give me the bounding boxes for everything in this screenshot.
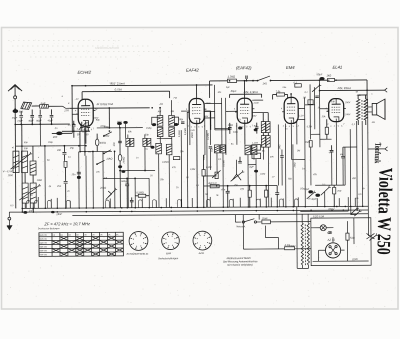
svg-text:MW·KW: MW·KW: [40, 235, 47, 237]
svg-text:90pF: 90pF: [36, 119, 42, 122]
svg-text:MW·KW: MW·KW: [40, 254, 47, 256]
svg-text:245V: 245V: [344, 113, 351, 116]
svg-text:100p: 100p: [178, 118, 184, 121]
svg-text:40pF: 40pF: [48, 119, 54, 122]
svg-text:FM: FM: [174, 98, 177, 100]
svg-text:EM4: EM4: [166, 252, 172, 255]
svg-text:Violetta W 250: Violetta W 250: [372, 167, 395, 255]
svg-text:0,1M: 0,1M: [260, 174, 265, 176]
svg-text:500p: 500p: [121, 180, 127, 183]
svg-text:0,3M: 0,3M: [206, 166, 211, 169]
svg-text:95V: 95V: [253, 116, 257, 118]
svg-text:50kΩ: 50kΩ: [204, 154, 206, 160]
svg-text:ZF = 472 kHz ≈ 10,7 MHz: ZF = 472 kHz ≈ 10,7 MHz: [43, 221, 90, 226]
svg-text:0,2MΩ: 0,2MΩ: [162, 162, 169, 164]
svg-text:1kΩ: 1kΩ: [114, 142, 116, 146]
svg-text:8µF: 8µF: [250, 167, 255, 169]
svg-text:1nF: 1nF: [29, 210, 34, 213]
svg-text:1000: 1000: [37, 179, 43, 182]
svg-text:15pF: 15pF: [17, 120, 23, 123]
svg-text:100p: 100p: [104, 127, 110, 129]
svg-text:2V: 2V: [94, 109, 98, 111]
svg-text:5µF: 5µF: [226, 87, 230, 89]
svg-text:AZ 41: AZ 41: [326, 238, 335, 242]
svg-text:47n: 47n: [221, 188, 226, 191]
svg-text:430: 430: [57, 149, 62, 152]
svg-text:7,5k: 7,5k: [276, 91, 281, 94]
svg-text:1TK: 1TK: [64, 108, 69, 112]
svg-text:1MΩ: 1MΩ: [305, 141, 310, 144]
svg-text:25n: 25n: [56, 185, 62, 188]
svg-text:2M: 2M: [296, 150, 300, 152]
svg-text:200V: 200V: [205, 103, 212, 105]
svg-text:141: 141: [263, 81, 268, 85]
svg-text:0,1MΩ: 0,1MΩ: [136, 191, 144, 194]
svg-text:250V: 250V: [344, 102, 351, 104]
svg-text:12V: 12V: [82, 131, 86, 133]
svg-text:0,75A: 0,75A: [115, 87, 122, 91]
svg-text:V––1,5V: V––1,5V: [3, 169, 13, 173]
svg-text:40kΩ: 40kΩ: [191, 132, 194, 138]
svg-text:Sockelschaltungen: Sockelschaltungen: [158, 257, 179, 260]
svg-text:MW·KW: MW·KW: [40, 250, 47, 252]
svg-text:1,34Ω: 1,34Ω: [227, 75, 235, 79]
svg-text:25n: 25n: [179, 151, 185, 153]
svg-text:mit Chassis verbinden): mit Chassis verbinden): [227, 264, 253, 267]
svg-text:1kΩ: 1kΩ: [326, 73, 331, 77]
svg-text:25n: 25n: [233, 185, 238, 187]
svg-text:0,25: 0,25: [211, 147, 213, 152]
svg-text:EM4: EM4: [286, 65, 295, 70]
svg-text:0,1MΩ: 0,1MΩ: [223, 160, 225, 167]
svg-text:40kΩ: 40kΩ: [100, 142, 106, 145]
svg-text:40pF: 40pF: [28, 120, 34, 123]
svg-text:25n: 25n: [71, 174, 77, 176]
svg-text:IK 0,01ETmA: IK 0,01ETmA: [97, 102, 114, 106]
svg-text:AZ41: AZ41: [198, 252, 205, 255]
svg-text:NSL 93mA: NSL 93mA: [338, 86, 352, 90]
svg-text:ECH42: ECH42: [77, 70, 91, 75]
svg-text:Tonfunk: Tonfunk: [373, 142, 383, 163]
svg-text:AM: AM: [159, 103, 163, 106]
svg-text:1,4V: 1,4V: [190, 129, 195, 132]
svg-text:15pF: 15pF: [12, 117, 18, 120]
svg-text:150p: 150p: [48, 142, 54, 144]
svg-text:20kΩ: 20kΩ: [99, 187, 106, 190]
svg-text:150p: 150p: [146, 127, 152, 130]
svg-text:400: 400: [53, 135, 58, 139]
svg-text:EAF42: EAF42: [186, 68, 200, 73]
svg-text:AM: AM: [157, 110, 162, 113]
svg-text:100p: 100p: [233, 132, 239, 134]
svg-text:40µF: 40µF: [304, 188, 310, 191]
svg-text:“801” 2,5mA: “801” 2,5mA: [110, 81, 126, 85]
svg-text:55V: 55V: [204, 116, 208, 118]
svg-text:25n: 25n: [159, 179, 165, 181]
svg-text:EL41: EL41: [332, 65, 342, 70]
svg-text:MW·KW: MW·KW: [40, 243, 47, 245]
svg-text:25p: 25p: [69, 148, 75, 150]
svg-text:1MΩ: 1MΩ: [117, 121, 122, 123]
svg-text:100V: 100V: [93, 118, 99, 120]
svg-text:210V: 210V: [253, 103, 260, 105]
svg-text:100p: 100p: [228, 124, 234, 127]
svg-text:40µF: 40µF: [311, 198, 317, 201]
svg-text:(EAF42): (EAF42): [236, 65, 252, 70]
svg-text:L.DR: L.DR: [252, 142, 258, 145]
svg-text:1,2V: 1,2V: [299, 115, 304, 117]
svg-text:TK: TK: [88, 152, 91, 154]
svg-text:220V: 220V: [351, 258, 358, 261]
svg-text:200V: 200V: [327, 207, 334, 211]
svg-text:MW·KW: MW·KW: [40, 239, 47, 241]
svg-text:NSL 6,3mA: NSL 6,3mA: [244, 90, 258, 94]
svg-text:4kΩ 1/4: 4kΩ 1/4: [208, 182, 217, 185]
svg-text:0,5M: 0,5M: [190, 169, 195, 171]
svg-text:0,2Ω 0,3A: 0,2Ω 0,3A: [313, 215, 325, 218]
svg-text:150: 150: [337, 190, 342, 193]
svg-text:50µF: 50µF: [316, 72, 322, 76]
svg-text:20kΩ: 20kΩ: [105, 158, 112, 161]
svg-text:0,5M: 0,5M: [307, 126, 312, 128]
svg-text:Netzsch.: Netzsch.: [236, 225, 246, 228]
svg-text:2MΩ: 2MΩ: [295, 162, 297, 168]
svg-text:25n: 25n: [299, 188, 305, 190]
svg-text:Drucktasten-Stellungen: Drucktasten-Stellungen: [38, 227, 60, 230]
svg-text:MW·KW: MW·KW: [40, 246, 47, 248]
svg-text:220V~: 220V~: [288, 244, 297, 248]
svg-text:0,1MΩ: 0,1MΩ: [179, 130, 181, 137]
svg-text:25nF: 25nF: [55, 213, 62, 216]
svg-text:20µF: 20µF: [230, 89, 237, 93]
svg-text:25n: 25n: [282, 87, 287, 89]
svg-text:25nF: 25nF: [261, 217, 268, 220]
svg-text:0,1MΩ: 0,1MΩ: [184, 128, 187, 135]
svg-text:FM: FM: [171, 111, 174, 113]
svg-text:1MΩ: 1MΩ: [279, 144, 281, 149]
svg-text:1000: 1000: [8, 174, 14, 177]
svg-text:200kΩ: 200kΩ: [123, 156, 125, 164]
svg-text:250p: 250p: [329, 101, 336, 103]
svg-text:radiomuseum: radiomuseum: [95, 45, 120, 50]
svg-text:ECH42/EAF42/EL41: ECH42/EAF42/EL41: [127, 253, 150, 256]
svg-text:–2V: –2V: [74, 99, 79, 101]
